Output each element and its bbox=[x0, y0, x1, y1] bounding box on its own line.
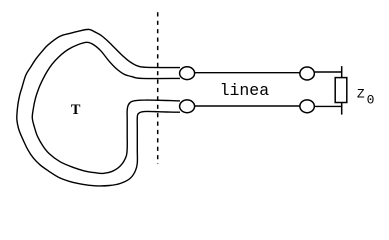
terminal ellipse left bottom bbox=[180, 100, 195, 113]
terminal ellipse right top bbox=[300, 67, 315, 80]
load top stub bbox=[341, 66, 343, 78]
load bottom stub bbox=[341, 103, 343, 115]
dashed reference line bbox=[157, 12, 159, 164]
wire top (linea) bbox=[195, 72, 300, 74]
wire bottom (linea) bbox=[195, 105, 300, 107]
wire bottom to load bbox=[314, 105, 341, 107]
terminal ellipse left top bbox=[180, 67, 195, 80]
loop tube outer outline (T) bbox=[17, 29, 180, 186]
svg-text:Z: Z bbox=[357, 87, 365, 102]
terminal ellipse right bottom bbox=[300, 100, 315, 113]
resistor Z0 body bbox=[335, 78, 347, 103]
loop tube inner outline (T) bbox=[32, 42, 180, 173]
wire top to load bbox=[314, 71, 341, 73]
svg-text:T: T bbox=[71, 102, 81, 118]
svg-text:linea: linea bbox=[220, 81, 270, 100]
svg-text:0: 0 bbox=[367, 93, 375, 108]
